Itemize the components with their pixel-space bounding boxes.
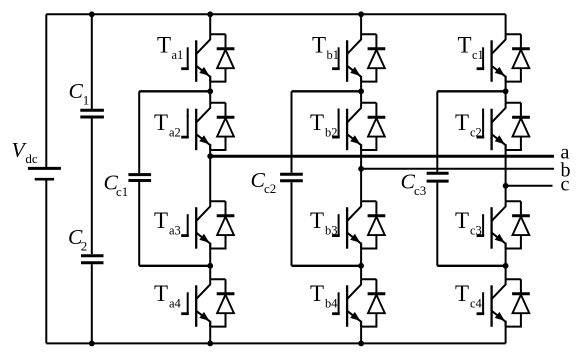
wire: leg a Ta4 to bottom bus — [209, 321, 211, 344]
wire: Cc1 branch upper vertical — [138, 91, 140, 173]
wire: Cc1 bottom horizontal — [139, 265, 210, 267]
wire: leg a top bus to Ta1 — [209, 14, 211, 34]
transistor Ta1 — [181, 34, 234, 82]
node: output a tap — [207, 153, 213, 159]
svg-text:T: T — [312, 33, 326, 58]
transistor Tc1 — [477, 34, 530, 82]
wire: leg b top bus to Tb1 — [360, 14, 362, 34]
svg-text:T: T — [455, 281, 469, 306]
gate bar extension Ta2 — [187, 109, 189, 118]
node: leg b Tb3-Tb4 junction — [358, 263, 364, 269]
wire: C2 to bottom bus — [91, 264, 93, 343]
wire: Cc3 top horizontal — [437, 90, 505, 92]
wire: Cc2 branch lower vertical — [291, 182, 293, 265]
svg-text:c4: c4 — [470, 297, 483, 311]
wire: Cc2 top horizontal — [292, 90, 362, 92]
svg-text:a2: a2 — [169, 126, 181, 140]
wire: leg b Tb2 to Tb3 — [360, 144, 362, 201]
transistor Tb2 — [332, 103, 385, 151]
svg-text:c3: c3 — [414, 183, 426, 198]
wire: Cc1 branch lower vertical — [138, 182, 140, 266]
capacitor C1 top plate — [80, 109, 104, 112]
node: output c tap — [503, 183, 509, 189]
svg-text:T: T — [310, 208, 324, 233]
svg-text:c2: c2 — [470, 126, 482, 140]
transistor Tc2 — [477, 103, 530, 151]
svg-text:a3: a3 — [169, 224, 181, 238]
node: leg c Tc3-Tc4 junction — [503, 263, 509, 269]
svg-text:c2: c2 — [264, 181, 276, 196]
svg-text:T: T — [154, 208, 168, 233]
wire: leg a Ta3 to Ta4 — [209, 243, 211, 280]
wire: leg c Tc2 to Tc3 — [505, 144, 507, 201]
node: bottom bus / leg a — [207, 341, 213, 347]
svg-text:c: c — [561, 174, 570, 196]
wire: Cc1 top horizontal — [139, 90, 210, 92]
wire: Cc3 bottom horizontal — [437, 265, 505, 267]
wire: Vdc branch upper — [45, 14, 47, 167]
wire: Cc2 bottom horizontal — [292, 265, 362, 267]
wire: Cc3 branch lower vertical — [436, 183, 438, 266]
wire: leg c Tc3 to Tc4 — [505, 243, 507, 280]
capacitor Cc3 top plate — [427, 172, 449, 175]
svg-text:T: T — [310, 281, 324, 306]
wire: output line a — [210, 155, 554, 158]
transistor Tb3 — [332, 201, 385, 249]
gate bar extension Tb2 — [338, 109, 340, 118]
capacitor C2 bottom plate — [81, 261, 104, 264]
wire: top DC bus — [46, 13, 505, 15]
gate bar extension Tc2 — [482, 109, 484, 118]
svg-text:b4: b4 — [325, 297, 338, 311]
svg-text:b3: b3 — [325, 224, 338, 238]
svg-text:c1: c1 — [116, 184, 128, 199]
wire: leg b Tb3 to Tb4 — [360, 243, 362, 280]
wire: leg c Tc4 to bottom bus — [505, 321, 507, 344]
svg-text:a4: a4 — [169, 297, 182, 311]
svg-text:2: 2 — [81, 239, 88, 254]
capacitor Cc2 bottom plate — [280, 179, 303, 182]
node: leg c Tc1-Tc2 junction — [503, 88, 509, 94]
capacitor Cc2 top plate — [280, 173, 303, 176]
node: top bus / leg a — [207, 11, 213, 17]
svg-text:T: T — [455, 208, 469, 233]
svg-text:T: T — [455, 110, 469, 135]
node: top bus / leg b — [358, 11, 364, 17]
wire: leg b Tb1 to Tb2 — [360, 76, 362, 103]
transistor Tc3 — [477, 201, 530, 249]
svg-text:C: C — [69, 79, 84, 103]
capacitor Cc3 bottom plate — [427, 180, 449, 183]
svg-text:T: T — [154, 110, 168, 135]
wire: leg b Tb4 to bottom bus — [360, 321, 362, 344]
wire: leg c Tc1 to Tc2 — [505, 76, 507, 103]
battery Vdc bottom plate — [35, 178, 54, 181]
wire: C1/C2 branch top — [91, 14, 93, 109]
svg-text:c1: c1 — [472, 48, 484, 62]
capacitor Cc1 bottom plate — [128, 179, 151, 182]
wire: between C1 and C2 — [91, 119, 93, 255]
capacitor C2 top plate — [81, 254, 104, 257]
capacitor C1 bottom plate — [80, 116, 104, 119]
node: leg a Ta3-Ta4 junction — [207, 263, 213, 269]
transistor Tc4 — [477, 279, 530, 327]
wire: output line b — [361, 168, 554, 170]
node: output b tap — [358, 166, 364, 172]
node: bottom bus / leg b — [358, 341, 364, 347]
svg-text:b2: b2 — [325, 126, 338, 140]
node: top bus / C1 branch — [89, 11, 95, 17]
wire: leg a Ta2 to Ta3 — [209, 144, 211, 201]
svg-text:a1: a1 — [172, 48, 184, 62]
wire: output line c — [506, 185, 553, 187]
transistor Tb4 — [332, 279, 385, 327]
transistor Tb1 — [332, 34, 385, 82]
transistor Ta4 — [181, 279, 234, 327]
capacitor Cc1 top plate — [128, 173, 151, 176]
battery Vdc top plate — [28, 167, 61, 170]
svg-text:T: T — [310, 110, 324, 135]
wire: bottom DC bus — [46, 342, 505, 344]
wire: leg a Ta1 to Ta2 — [209, 76, 211, 103]
wire: Vdc branch lower — [45, 180, 47, 343]
node: bottom bus / C2 branch — [89, 341, 95, 347]
node: leg b Tb1-Tb2 junction — [358, 88, 364, 94]
svg-text:b1: b1 — [327, 48, 340, 62]
svg-text:T: T — [154, 281, 168, 306]
svg-text:dc: dc — [25, 151, 38, 166]
wire: leg c top bus to Tc1 — [505, 14, 507, 34]
node: leg a Ta1-Ta2 junction — [207, 88, 213, 94]
svg-text:T: T — [458, 33, 472, 58]
wire: Cc3 branch upper vertical — [436, 91, 438, 171]
transistor Ta2 — [181, 103, 234, 151]
svg-text:c3: c3 — [470, 224, 482, 238]
svg-text:T: T — [157, 33, 171, 58]
svg-text:1: 1 — [83, 93, 90, 108]
wire: Cc2 branch upper vertical — [291, 91, 293, 172]
transistor Ta3 — [181, 201, 234, 249]
